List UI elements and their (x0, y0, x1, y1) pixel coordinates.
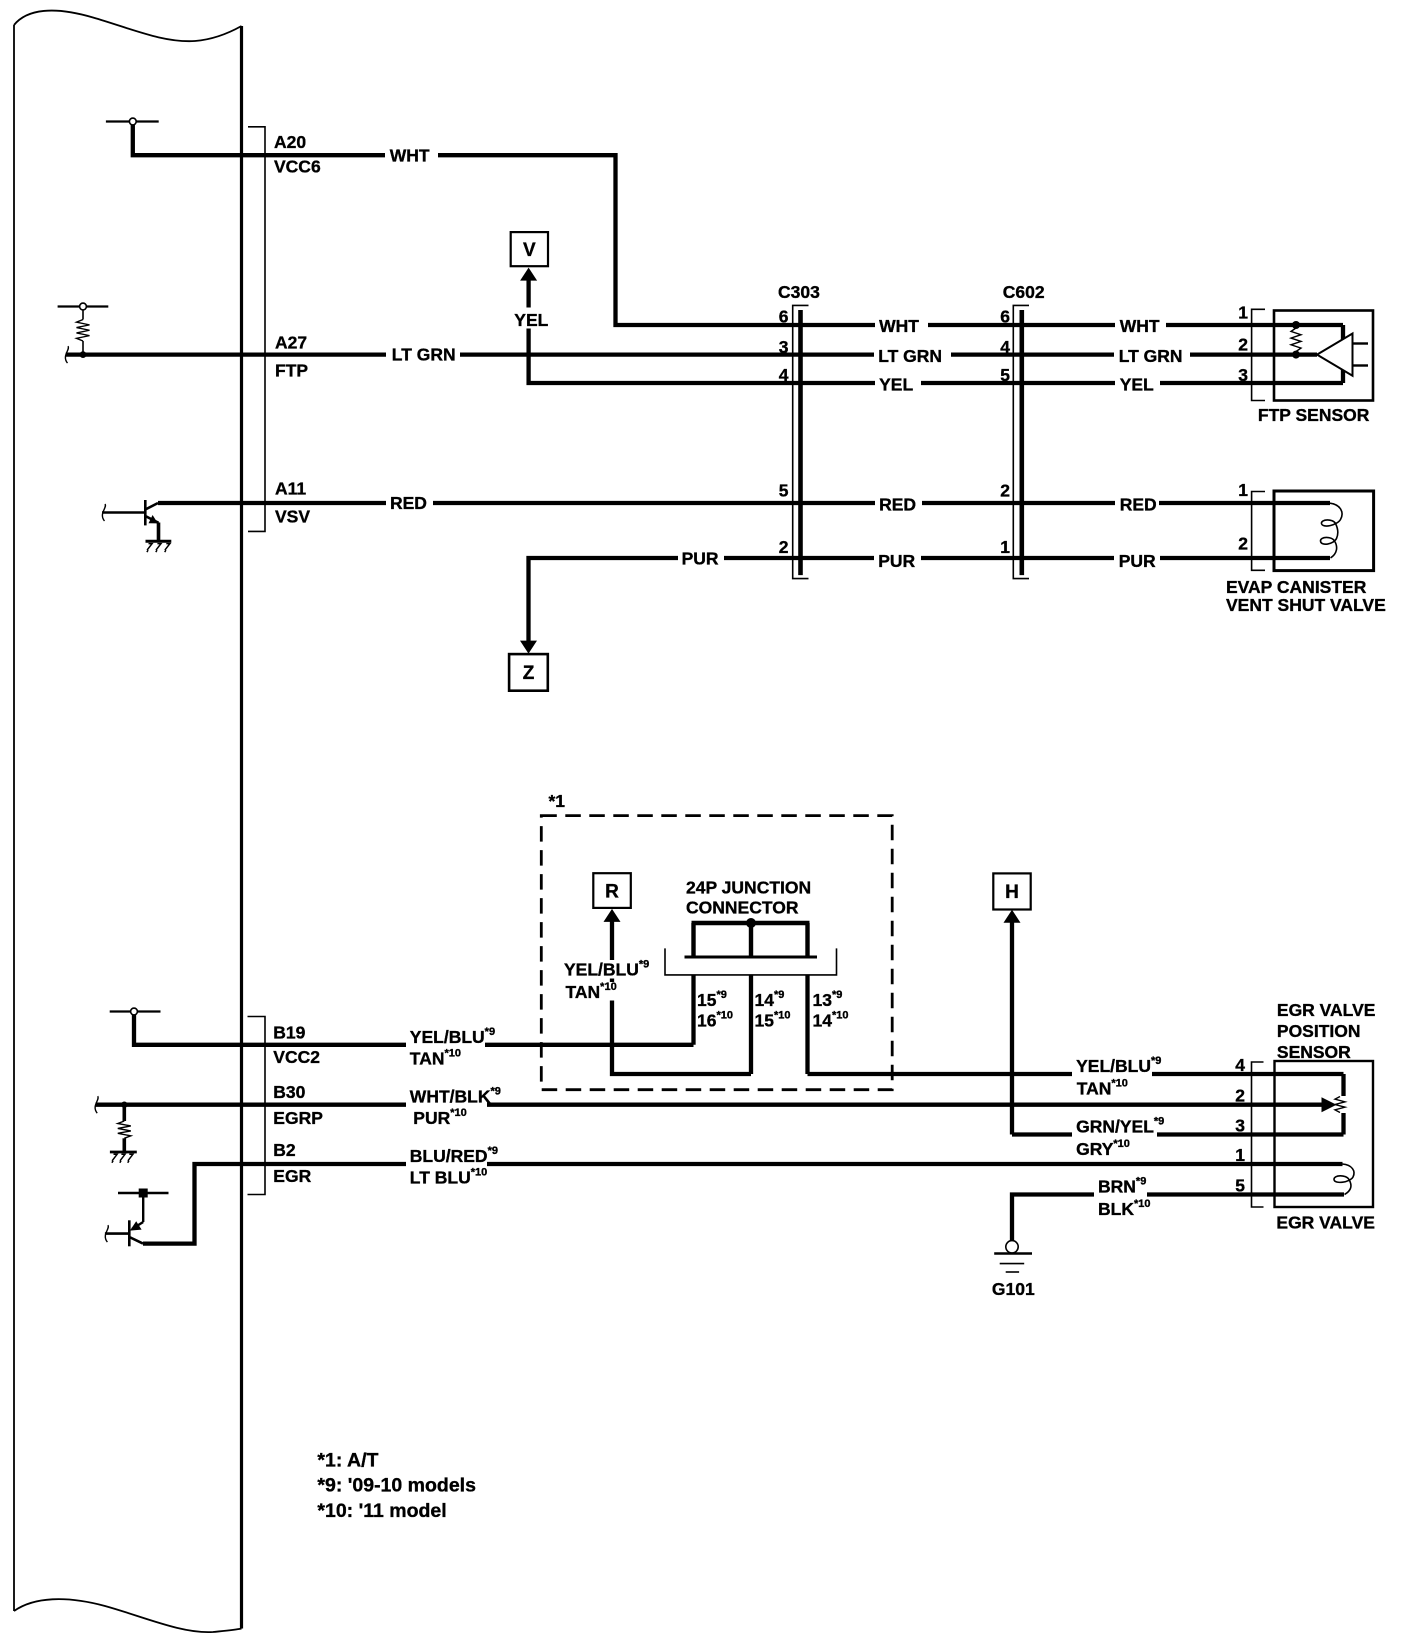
svg-text:2: 2 (1238, 334, 1248, 354)
svg-text:*9: '09-10 models: *9: '09-10 models (317, 1475, 476, 1497)
svg-text:GRN/YEL*9: GRN/YEL*9 (1076, 1116, 1164, 1137)
svg-text:RED: RED (1120, 494, 1157, 514)
svg-text:LT GRN: LT GRN (392, 344, 456, 364)
svg-text:PUR: PUR (682, 548, 719, 568)
svg-text:B2: B2 (273, 1140, 296, 1160)
svg-text:2: 2 (779, 537, 789, 557)
svg-text:2: 2 (1000, 480, 1010, 500)
svg-text:A11: A11 (275, 478, 306, 498)
svg-text:1: 1 (1235, 1145, 1245, 1165)
svg-text:WHT: WHT (1120, 316, 1160, 336)
svg-text:YEL: YEL (879, 375, 913, 395)
svg-text:1: 1 (1000, 537, 1010, 557)
svg-text:VSV: VSV (275, 506, 310, 526)
svg-text:5: 5 (1235, 1176, 1245, 1196)
svg-text:RED: RED (390, 493, 427, 513)
svg-text:V: V (523, 240, 536, 261)
svg-text:EVAP CANISTER: EVAP CANISTER (1226, 577, 1367, 597)
svg-text:*1: A/T: *1: A/T (317, 1449, 378, 1471)
svg-text:EGR VALVE: EGR VALVE (1277, 1000, 1376, 1020)
svg-text:4: 4 (1235, 1055, 1245, 1075)
svg-text:FTP: FTP (275, 360, 308, 380)
svg-text:6: 6 (779, 307, 789, 327)
svg-text:EGR VALVE: EGR VALVE (1276, 1212, 1375, 1232)
svg-text:YEL/BLU*9: YEL/BLU*9 (410, 1026, 495, 1047)
svg-text:1: 1 (1238, 303, 1248, 323)
svg-text:C602: C602 (1003, 282, 1045, 302)
svg-text:LT GRN: LT GRN (878, 346, 942, 366)
svg-text:POSITION: POSITION (1277, 1021, 1361, 1041)
svg-text:3: 3 (1238, 365, 1248, 385)
svg-text:RED: RED (879, 494, 916, 514)
svg-text:2: 2 (1238, 533, 1248, 553)
svg-text:3: 3 (1235, 1116, 1245, 1136)
svg-text:YEL/BLU*9: YEL/BLU*9 (564, 958, 649, 979)
svg-text:WHT/BLK*9: WHT/BLK*9 (410, 1086, 501, 1107)
svg-text:CONNECTOR: CONNECTOR (686, 898, 799, 918)
svg-text:1: 1 (1238, 480, 1248, 500)
svg-text:24P JUNCTION: 24P JUNCTION (686, 878, 811, 898)
svg-text:EGRP: EGRP (273, 1108, 323, 1128)
svg-text:2: 2 (1235, 1086, 1245, 1106)
svg-text:4: 4 (1000, 337, 1010, 357)
svg-text:G101: G101 (992, 1279, 1035, 1299)
svg-text:B19: B19 (273, 1023, 305, 1043)
svg-text:VENT SHUT VALVE: VENT SHUT VALVE (1226, 595, 1386, 615)
svg-text:WHT: WHT (879, 316, 919, 336)
svg-text:YEL/BLU*9: YEL/BLU*9 (1076, 1055, 1161, 1076)
svg-text:A20: A20 (274, 132, 306, 152)
svg-text:PUR: PUR (878, 551, 915, 571)
svg-text:3: 3 (779, 337, 789, 357)
svg-text:VCC6: VCC6 (274, 157, 321, 177)
svg-text:H: H (1005, 882, 1019, 903)
svg-text:*1: *1 (549, 791, 566, 811)
svg-text:*10: '11 model: *10: '11 model (317, 1500, 446, 1522)
svg-text:5: 5 (779, 480, 789, 500)
svg-text:WHT: WHT (390, 145, 430, 165)
svg-text:FTP SENSOR: FTP SENSOR (1258, 405, 1370, 425)
svg-text:LT GRN: LT GRN (1119, 346, 1183, 366)
svg-text:YEL: YEL (1120, 375, 1154, 395)
svg-text:5: 5 (1000, 365, 1010, 385)
svg-text:C303: C303 (778, 282, 820, 302)
svg-text:YEL: YEL (514, 310, 548, 330)
svg-text:6: 6 (1000, 307, 1010, 327)
svg-text:R: R (605, 882, 619, 903)
svg-text:BLU/RED*9: BLU/RED*9 (410, 1145, 498, 1166)
svg-text:A27: A27 (275, 332, 307, 352)
svg-text:B30: B30 (273, 1082, 305, 1102)
svg-text:VCC2: VCC2 (273, 1047, 320, 1067)
svg-text:4: 4 (779, 365, 789, 385)
svg-text:EGR: EGR (273, 1166, 311, 1186)
svg-text:Z: Z (523, 663, 535, 684)
svg-text:PUR: PUR (1119, 551, 1156, 571)
svg-text:SENSOR: SENSOR (1277, 1042, 1351, 1062)
